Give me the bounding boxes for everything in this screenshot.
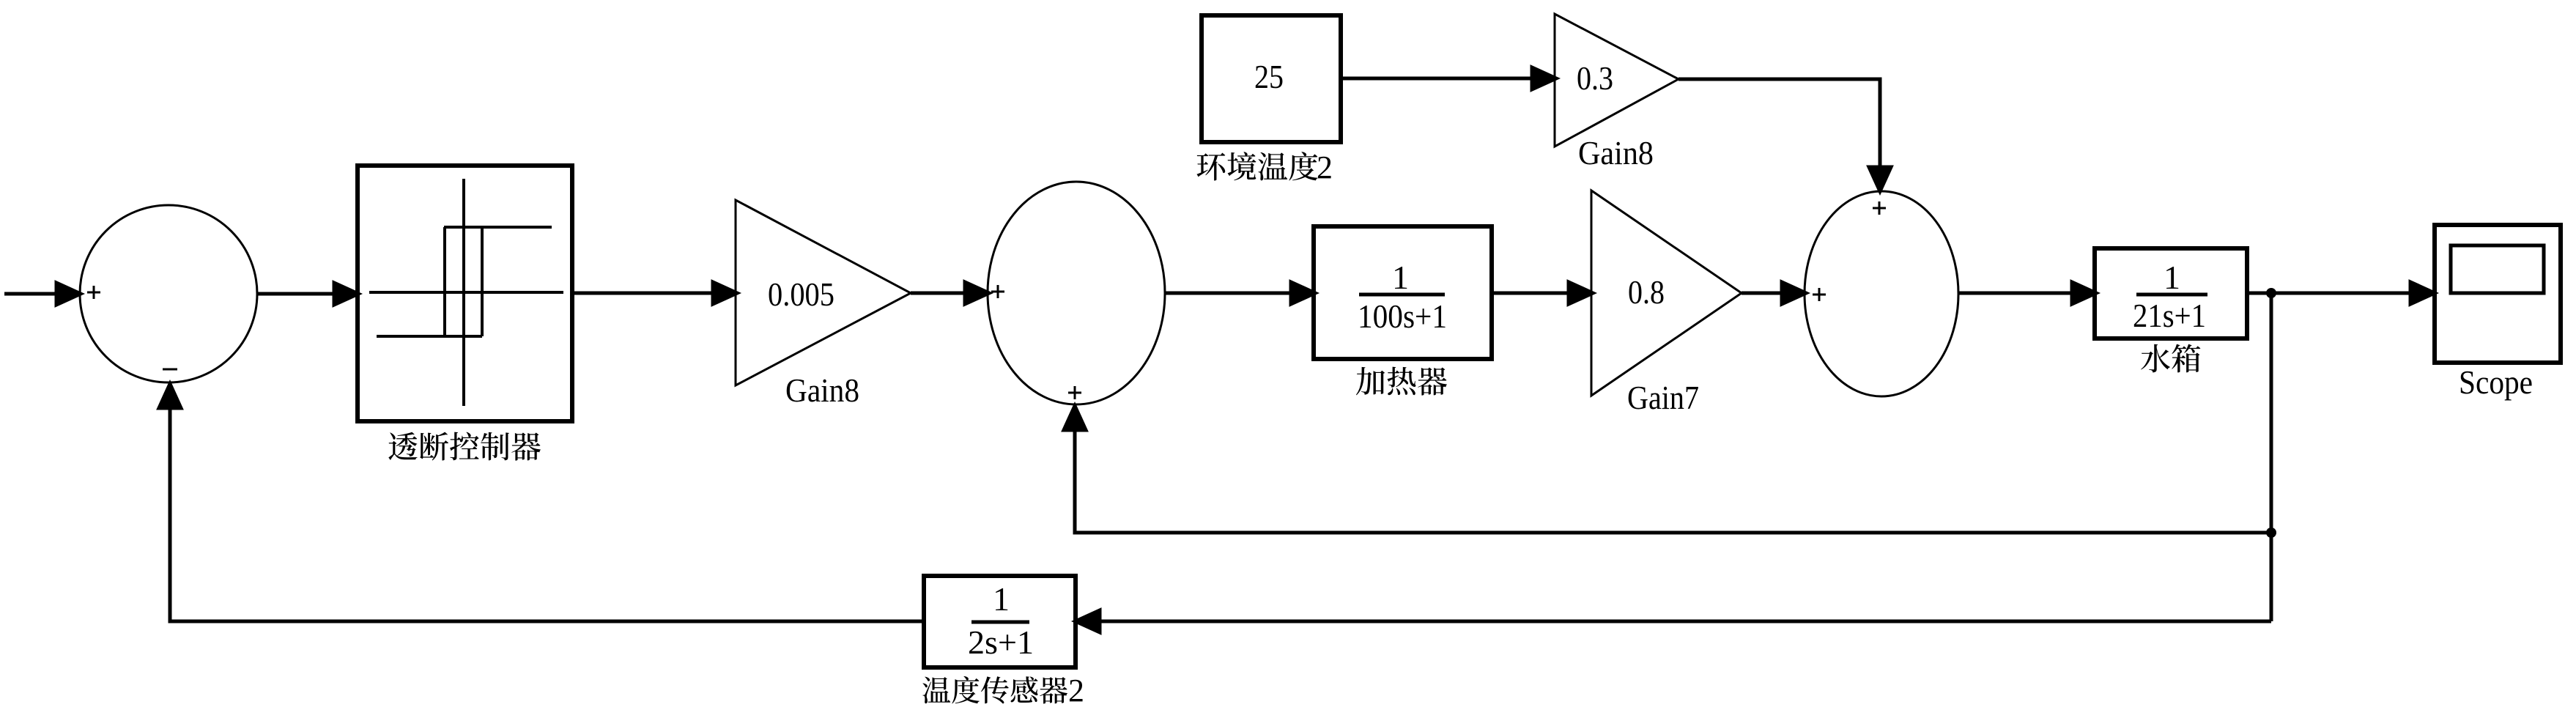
label heater name 加热器 bbox=[1356, 367, 1447, 396]
junction node dot after tank bbox=[2266, 288, 2276, 298]
svg-text:0.3: 0.3 bbox=[1577, 59, 1613, 97]
svg-text:0.005: 0.005 bbox=[768, 275, 834, 313]
wire sensor to S1 bottom input bbox=[159, 384, 924, 621]
svg-text:25: 25 bbox=[1254, 58, 1284, 95]
input wire bbox=[4, 283, 81, 305]
label tank name 水箱 bbox=[2141, 344, 2200, 373]
svg-text:Gain8: Gain8 bbox=[1578, 134, 1654, 171]
scope block Scope bbox=[2435, 225, 2561, 401]
svg-text:0.8: 0.8 bbox=[1628, 273, 1665, 311]
feedback trunk wire down from node bbox=[2270, 293, 2273, 621]
gain block top Gain8 (0.3) bbox=[1555, 14, 1679, 171]
svg-text:1: 1 bbox=[1392, 259, 1409, 296]
transfer fn block sensor 1/(2s+1) bbox=[924, 576, 1076, 667]
sum junction S1 bbox=[80, 205, 257, 382]
wire S3 to tank bbox=[1958, 282, 2096, 304]
svg-text:1: 1 bbox=[993, 580, 1010, 618]
label constant name 环境温度2 bbox=[1196, 152, 1317, 180]
wire Gain8 to sum S2 bbox=[911, 282, 989, 304]
svg-text:Scope: Scope bbox=[2459, 363, 2533, 401]
wire heater to Gain7 bbox=[1492, 282, 1593, 304]
sum junction S3 (ellipse) bbox=[1805, 191, 1958, 396]
relay block (hysteresis controller) bbox=[358, 166, 572, 421]
constant block 25 bbox=[1202, 15, 1341, 142]
wire S1 to relay bbox=[257, 283, 358, 305]
wire Gain7 to sum S3 bbox=[1742, 282, 1806, 304]
gain block Gain7 (0.8) bbox=[1591, 190, 1742, 416]
transfer fn block water tank 1/(21s+1) bbox=[2095, 248, 2247, 338]
svg-text:Gain8: Gain8 bbox=[785, 371, 859, 409]
sum junction S2 (ellipse) bbox=[988, 182, 1165, 404]
svg-text:2: 2 bbox=[1317, 149, 1333, 185]
svg-text:Gain7: Gain7 bbox=[1627, 379, 1699, 416]
wire S2 to heater bbox=[1165, 282, 1315, 304]
svg-text:1: 1 bbox=[2164, 259, 2180, 296]
wire relay to Gain8 bbox=[572, 282, 737, 304]
junction node dot mid feedback bbox=[2266, 528, 2276, 538]
svg-text:2s+1: 2s+1 bbox=[968, 623, 1034, 661]
gain block Gain8 (0.005) bbox=[736, 200, 911, 409]
wire 25 to top Gain8 bbox=[1341, 67, 1556, 89]
label sensor name 温度传感器2 bbox=[922, 676, 1067, 704]
wire tank to Scope bbox=[2247, 282, 2435, 304]
svg-text:2: 2 bbox=[1068, 673, 1084, 708]
wire mid feedback to S2 bottom input bbox=[1064, 406, 2271, 533]
wire top Gain8 to S3 top input bbox=[1679, 79, 1891, 191]
label relay name 透断控制器 bbox=[388, 432, 541, 461]
svg-text:21s+1: 21s+1 bbox=[2133, 297, 2206, 334]
transfer fn block heater 1/(100s+1) bbox=[1314, 226, 1492, 359]
wire bottom feedback to sensor bbox=[1076, 610, 2271, 632]
svg-text:100s+1: 100s+1 bbox=[1358, 297, 1447, 335]
